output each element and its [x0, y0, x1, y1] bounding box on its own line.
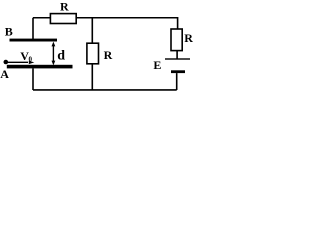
svg-text:E: E [153, 58, 161, 72]
svg-text:d: d [57, 49, 65, 64]
battery E positive plate (long thin) [165, 58, 190, 59]
wire middle vertical from top wire to resistor R2 [91, 18, 93, 44]
resistor R2 (middle vertical) [87, 43, 99, 64]
wire top horizontal from left branch to right corner [33, 17, 178, 19]
particle dot at A [4, 60, 9, 65]
wire from battery to bottom wire [176, 73, 178, 90]
battery E negative plate (short thick) [171, 70, 185, 73]
capacitor plate B (top plate) [10, 39, 58, 42]
wire right vertical drop from top corner to resistor R3 [177, 17, 179, 30]
velocity arrow V0 [7, 61, 28, 63]
capacitor plate A (bottom plate) [7, 65, 73, 69]
svg-text:B: B [5, 25, 13, 39]
resistor R3 (right vertical) [171, 29, 182, 51]
svg-text:R: R [60, 0, 69, 14]
wire from resistor R3 to battery [176, 51, 178, 59]
svg-text:0: 0 [29, 55, 33, 63]
wire middle vertical from resistor R2 to bottom wire [91, 64, 93, 91]
wire left vertical from top wire to plate B [32, 18, 34, 39]
wire from plate A down to bottom wire [32, 68, 34, 90]
wire bottom horizontal [33, 89, 177, 91]
svg-text:A: A [0, 67, 9, 81]
distance arrow d (double-headed between plates) [52, 44, 54, 63]
resistor R1 (top horizontal) [50, 14, 76, 24]
svg-text:R: R [184, 31, 193, 45]
svg-text:R: R [104, 48, 113, 62]
